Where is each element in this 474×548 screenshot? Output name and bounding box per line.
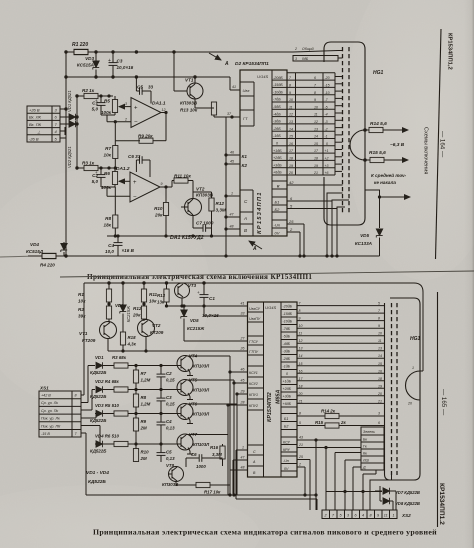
svg-text:-1: -1 xyxy=(325,135,328,139)
svg-text:VT2: VT2 xyxy=(196,187,205,192)
svg-text:-3дБ: -3дБ xyxy=(273,120,281,124)
svg-text:В: В xyxy=(244,228,247,233)
svg-text:VT1: VT1 xyxy=(79,331,88,336)
svg-text:⊥: ⊥ xyxy=(37,129,41,134)
svg-text:-5дБ: -5дБ xyxy=(283,335,291,339)
transistor VT3 xyxy=(175,283,197,307)
transistor VT7 xyxy=(177,432,210,454)
svg-text:VD5: VD5 xyxy=(190,318,199,323)
diode VD8 xyxy=(380,486,420,510)
svg-text:ЛШ: ЛШ xyxy=(362,459,369,463)
svg-text:21: 21 xyxy=(298,399,303,403)
svg-text:VD8 КД522В: VD8 КД522В xyxy=(395,501,420,506)
svg-text:КС215Ж: КС215Ж xyxy=(126,305,131,322)
svg-text:С6 33: С6 33 xyxy=(128,154,141,159)
svg-text:15: 15 xyxy=(314,142,318,146)
svg-text:К средней точ-: К средней точ- xyxy=(371,172,407,178)
resistor R13 xyxy=(195,98,217,117)
svg-text:10,0×16: 10,0×16 xyxy=(117,65,134,70)
wire GT pin xyxy=(214,112,240,118)
svg-text:0: 0 xyxy=(326,142,328,146)
svg-text:8: 8 xyxy=(299,412,301,416)
svg-text:КСУ1: КСУ1 xyxy=(249,371,258,375)
svg-text:0V: 0V xyxy=(275,231,280,236)
svg-text:VD1: VD1 xyxy=(95,355,104,360)
svg-text:+6дБ: +6дБ xyxy=(283,402,292,406)
svg-text:21: 21 xyxy=(298,443,303,447)
svg-text:9: 9 xyxy=(378,324,380,328)
resistor R3 xyxy=(77,161,115,171)
svg-text:R8: R8 xyxy=(105,216,111,221)
wire staircase to XS2 xyxy=(315,439,392,510)
resistor R17 xyxy=(176,482,230,495)
wire KSU KRU rows xyxy=(297,436,361,448)
resistor row4 xyxy=(114,441,177,446)
transistor VT4 xyxy=(177,354,210,376)
svg-text:11: 11 xyxy=(289,105,293,109)
svg-text:20к: 20к xyxy=(132,313,141,318)
IC D1 dB cells xyxy=(283,305,293,472)
wire K pins xyxy=(225,117,240,256)
svg-text:-15дБ: -15дБ xyxy=(283,312,293,316)
wire opamp1 minus input xyxy=(107,121,131,141)
margin rule top xyxy=(436,29,442,259)
margin page 164 xyxy=(439,131,446,158)
svg-text:Зелень: Зелень xyxy=(363,430,375,434)
svg-text:ке накала: ке накала xyxy=(374,180,396,185)
svg-text:2к: 2к xyxy=(340,420,346,425)
svg-text:VD2 КД521: VD2 КД521 xyxy=(67,146,72,168)
svg-text:1: 1 xyxy=(393,514,395,518)
wire CAB drops xyxy=(230,450,317,510)
capacitor C3 xyxy=(108,52,134,77)
svg-text:КД522Б: КД522Б xyxy=(90,370,106,375)
resistor R10 xyxy=(133,444,149,462)
svg-text:-7дБ: -7дБ xyxy=(283,327,291,331)
svg-text:— 164 —: — 164 — xyxy=(439,131,446,158)
svg-text:Вх. ПК: Вх. ПК xyxy=(29,122,42,127)
connector XS1 top xyxy=(27,106,66,142)
svg-text:VD1 - VD4: VD1 - VD4 xyxy=(86,470,109,476)
svg-text:9: 9 xyxy=(299,317,301,321)
svg-text:R15: R15 xyxy=(315,420,324,425)
resistor R15 bottom xyxy=(297,420,385,428)
svg-text:0дБ: 0дБ xyxy=(302,57,309,61)
wire opamp1 plus input xyxy=(101,107,131,122)
svg-text:3: 3 xyxy=(378,412,380,416)
svg-text:6: 6 xyxy=(314,76,316,80)
wire GTPU row xyxy=(108,337,240,353)
svg-text:R7: R7 xyxy=(105,146,111,151)
svg-text:Пик. ур. ПК: Пик. ур. ПК xyxy=(41,424,61,428)
svg-text:-4дБ: -4дБ xyxy=(283,342,291,346)
svg-text:~6,3 В: ~6,3 В xyxy=(390,142,405,148)
svg-text:0V: 0V xyxy=(284,467,289,471)
svg-text:ГТСУ: ГТСУ xyxy=(249,340,259,344)
svg-text:0,13: 0,13 xyxy=(166,456,175,461)
ground tap xyxy=(60,127,65,135)
svg-text:2: 2 xyxy=(124,118,127,122)
margin text schemes xyxy=(423,127,429,174)
margin page 165 xyxy=(440,389,447,416)
svg-text:1: 1 xyxy=(242,446,244,450)
svg-text:3: 3 xyxy=(125,102,127,106)
svg-text:19: 19 xyxy=(378,384,382,388)
capacitor C6 xyxy=(186,452,223,469)
svg-text:VD4 R6 510: VD4 R6 510 xyxy=(95,434,119,439)
svg-text:КС133А: КС133А xyxy=(355,241,372,246)
svg-text:26: 26 xyxy=(240,347,245,351)
connector XS2 xyxy=(322,510,411,519)
svg-text:R10: R10 xyxy=(154,206,163,211)
resistor R2 xyxy=(77,88,113,99)
svg-text:-10дБ: -10дБ xyxy=(273,90,283,94)
svg-text:R3 1к: R3 1к xyxy=(82,161,95,166)
label 6.3V xyxy=(390,142,405,148)
svg-text:Кк: Кк xyxy=(363,452,367,456)
svg-text:+1: +1 xyxy=(325,149,329,153)
svg-text:R3 68к: R3 68к xyxy=(112,355,127,360)
svg-text:-20дБ: -20дБ xyxy=(283,305,293,309)
svg-text:2М: 2М xyxy=(140,426,147,431)
svg-text:+2дБ: +2дБ xyxy=(273,156,282,160)
svg-text:Б1: Б1 xyxy=(275,200,280,205)
svg-text:14: 14 xyxy=(378,354,382,358)
signal name box xyxy=(361,427,384,470)
svg-text:+: + xyxy=(197,290,200,295)
diode VD3 xyxy=(90,403,119,423)
wire GTSU row xyxy=(184,340,240,342)
wire CAB pins xyxy=(225,192,240,231)
svg-text:А: А xyxy=(224,61,229,67)
svg-text:18к: 18к xyxy=(104,223,112,228)
svg-text:-10: -10 xyxy=(325,91,330,95)
svg-text:DA1.2: DA1.2 xyxy=(116,166,130,172)
svg-text:КП103Л: КП103Л xyxy=(193,364,210,369)
transistor VT2 bottom xyxy=(138,320,164,337)
svg-text:13к: 13к xyxy=(157,300,165,305)
svg-text:VD1 КД521: VD1 КД521 xyxy=(67,90,72,112)
transistor VT1 xyxy=(180,78,203,113)
svg-text:20: 20 xyxy=(288,171,293,175)
svg-text:КР1534ПП2: КР1534ПП2 xyxy=(267,392,273,422)
IC D1 KR1534PP2 xyxy=(248,302,298,477)
resistor R14 xyxy=(365,121,408,133)
svg-text:+6: +6 xyxy=(325,171,329,175)
svg-text:28: 28 xyxy=(240,401,245,405)
svg-text:+2дБ: +2дБ xyxy=(283,387,292,391)
svg-text:16: 16 xyxy=(378,369,382,373)
svg-text:+: + xyxy=(108,58,111,64)
svg-text:+: + xyxy=(133,180,137,186)
display common wires xyxy=(326,193,349,257)
svg-text:42: 42 xyxy=(289,180,294,185)
capacitor С3 xyxy=(157,390,176,414)
svg-text:-2дБ: -2дБ xyxy=(283,357,291,361)
label DA1 type xyxy=(170,235,204,241)
svg-text:R11 10к: R11 10к xyxy=(174,174,191,179)
wire XS1 row stubs xyxy=(81,366,100,496)
svg-text:+1дБ: +1дБ xyxy=(283,380,292,384)
margin rule bottom xyxy=(437,292,439,527)
svg-text:UвхПУ: UвхПУ xyxy=(249,317,261,321)
svg-text:5: 5 xyxy=(299,421,301,425)
svg-text:10: 10 xyxy=(289,98,293,102)
IC D2 dB cells xyxy=(272,76,287,175)
resistor R4 xyxy=(40,253,56,267)
svg-text:U/14S: U/14S xyxy=(257,74,268,79)
svg-text:R16: R16 xyxy=(210,445,219,450)
svg-text:Пик. ур. Лк: Пик. ур. Лк xyxy=(41,417,60,421)
resistor R16 xyxy=(210,444,225,466)
svg-text:3,3М: 3,3М xyxy=(216,208,226,213)
svg-text:+26 В: +26 В xyxy=(29,108,40,113)
diode VD2 xyxy=(60,121,76,168)
svg-text:КПУ2: КПУ2 xyxy=(249,404,258,408)
svg-text:9: 9 xyxy=(314,98,316,102)
resistor R11 bottom xyxy=(141,283,157,304)
svg-text:-7дБ: -7дБ xyxy=(273,98,281,102)
wire drain to pin xyxy=(186,356,240,495)
resistor R12 bottom xyxy=(132,302,147,320)
zener VD4 xyxy=(26,242,67,256)
svg-text:2: 2 xyxy=(294,47,297,51)
capacitor C6 xyxy=(128,154,150,177)
svg-text:13: 13 xyxy=(314,127,318,131)
svg-text:8: 8 xyxy=(289,84,291,88)
resistor R7 xyxy=(104,141,118,169)
svg-text:С: С xyxy=(253,450,256,454)
wire mid rail xyxy=(66,76,230,78)
wire rail entry xyxy=(414,283,423,371)
node common row xyxy=(293,47,342,61)
svg-text:15: 15 xyxy=(378,362,382,366)
diode VD1 xyxy=(60,90,76,120)
svg-text:11: 11 xyxy=(314,113,318,117)
capacitor C1 xyxy=(92,96,106,115)
svg-text:R7: R7 xyxy=(141,371,147,376)
svg-text:XS2: XS2 xyxy=(401,513,411,518)
svg-text:Б2: Б2 xyxy=(284,425,288,429)
zener VD5 bottom xyxy=(181,305,205,341)
wire supply riser xyxy=(81,283,84,395)
svg-text:2: 2 xyxy=(324,514,327,518)
svg-text:КТ209: КТ209 xyxy=(150,330,164,335)
wire pin33 row xyxy=(204,306,240,316)
wire supply drops xyxy=(287,224,305,257)
svg-text:43: 43 xyxy=(299,436,303,440)
svg-text:С2: С2 xyxy=(92,173,98,178)
svg-text:-Uп: -Uп xyxy=(283,459,289,463)
svg-text:ГТПУ: ГТПУ xyxy=(249,350,259,354)
svg-text:VT8: VT8 xyxy=(166,463,175,468)
svg-text:+2: +2 xyxy=(325,157,329,161)
wire lower rail xyxy=(107,235,240,237)
svg-text:С1: С1 xyxy=(92,101,98,106)
label middle tap xyxy=(371,172,410,197)
svg-text:С3: С3 xyxy=(166,395,172,400)
capacitor C1 bottom xyxy=(197,283,219,318)
diode VD1 xyxy=(88,355,114,375)
capacitor С2 xyxy=(157,366,176,390)
svg-text:+6дБ: +6дБ xyxy=(273,171,282,175)
pin ladder rows xyxy=(287,73,342,175)
wire VT1 drain xyxy=(195,77,240,90)
resistor R1 xyxy=(72,42,88,55)
svg-text:R8: R8 xyxy=(141,395,147,400)
svg-text:Вх. ЛК: Вх. ЛК xyxy=(29,115,42,120)
wire input node rail xyxy=(76,95,78,169)
svg-text:-15дБ: -15дБ xyxy=(273,83,283,87)
svg-text:10к: 10к xyxy=(104,153,112,158)
svg-text:R10: R10 xyxy=(141,450,150,455)
svg-text:46: 46 xyxy=(230,151,234,155)
svg-text:С2: С2 xyxy=(166,371,172,376)
svg-text:КРУ: КРУ xyxy=(283,448,290,452)
svg-text:25: 25 xyxy=(288,219,294,224)
label A arrow xyxy=(209,53,269,67)
svg-text:19: 19 xyxy=(289,164,293,168)
transistor VT8 xyxy=(162,463,184,487)
svg-text:0: 0 xyxy=(286,372,288,376)
wire opamp2 output xyxy=(160,186,167,202)
svg-text:HG1: HG1 xyxy=(410,336,421,342)
svg-text:46: 46 xyxy=(241,368,245,372)
svg-text:VD5: VD5 xyxy=(360,233,369,238)
svg-text:1: 1 xyxy=(412,366,414,370)
svg-text:10к: 10к xyxy=(78,299,86,304)
IC D2 right lower cells xyxy=(272,180,294,236)
svg-text:КД522Б: КД522Б xyxy=(90,418,106,423)
svg-text:Д: Д xyxy=(362,466,366,470)
svg-text:+42 В: +42 В xyxy=(41,394,51,398)
svg-text:10: 10 xyxy=(299,324,303,328)
connector XS1 xyxy=(39,386,81,438)
svg-text:3,3М: 3,3М xyxy=(212,452,222,457)
svg-text:С4: С4 xyxy=(166,419,172,424)
margin text KR1534PP1.2 bottom xyxy=(438,483,445,525)
svg-text:ГТ: ГТ xyxy=(243,116,248,121)
transistor VT2 xyxy=(181,187,214,216)
svg-text:1: 1 xyxy=(231,192,233,196)
resistor R11 xyxy=(166,174,193,199)
resistor R2 bottom xyxy=(78,302,112,322)
wire left rail xyxy=(65,52,67,256)
svg-text:КД522Б: КД522Б xyxy=(90,449,106,454)
zener VD6 xyxy=(115,283,131,332)
svg-text:С1: С1 xyxy=(209,296,215,301)
svg-text:КП103Л: КП103Л xyxy=(193,442,210,447)
svg-text:А: А xyxy=(252,246,257,252)
svg-text:0,15: 0,15 xyxy=(166,378,175,383)
resistor R9 xyxy=(133,414,147,445)
trimmer R5 xyxy=(101,96,126,115)
svg-text:8: 8 xyxy=(314,91,316,95)
svg-text:-3: -3 xyxy=(325,120,328,124)
svg-text:10к: 10к xyxy=(149,299,157,304)
wire bottom rail xyxy=(0,255,380,257)
svg-text:33: 33 xyxy=(241,312,245,316)
caption bottom figure xyxy=(93,528,437,537)
transistor VT1 bottom xyxy=(79,322,117,344)
svg-text:13: 13 xyxy=(299,347,303,351)
svg-text:-5дБ: -5дБ xyxy=(273,105,281,109)
svg-text:1,2М: 1,2М xyxy=(141,402,151,407)
capacitor С4 xyxy=(157,414,176,445)
resistor R10 xyxy=(154,203,169,237)
svg-text:16: 16 xyxy=(299,369,303,373)
svg-text:С6: С6 xyxy=(191,452,197,457)
svg-text:1000: 1000 xyxy=(196,464,206,469)
svg-text:-2: -2 xyxy=(325,127,328,131)
svg-text:R1: R1 xyxy=(78,292,84,297)
svg-text:+3: +3 xyxy=(325,164,329,168)
svg-text:Б1: Б1 xyxy=(284,417,288,421)
margin text KR1534PP1,2 top xyxy=(447,33,453,70)
wire opamp1 output xyxy=(161,111,167,140)
svg-text:13: 13 xyxy=(289,120,293,124)
svg-text:VD6: VD6 xyxy=(115,303,124,308)
svg-text:VD3 R5 510: VD3 R5 510 xyxy=(95,403,119,408)
svg-text:КС515А: КС515А xyxy=(77,63,94,68)
svg-text:−: − xyxy=(134,120,138,126)
svg-text:×16 В: ×16 В xyxy=(122,248,135,253)
svg-text:+3дБ: +3дБ xyxy=(283,395,292,399)
IC D1 left cells xyxy=(248,307,264,475)
svg-text:КСУ2: КСУ2 xyxy=(249,382,258,386)
resistor R13 bottom xyxy=(157,283,169,306)
transistor VT6 xyxy=(177,402,210,424)
svg-text:М85А: М85А xyxy=(276,390,282,404)
svg-text:R2: R2 xyxy=(78,307,84,312)
svg-text:VT3: VT3 xyxy=(188,283,197,288)
svg-text:R13: R13 xyxy=(157,293,166,298)
svg-text:КС515Д: КС515Д xyxy=(26,249,44,254)
svg-text:R14 2к: R14 2к xyxy=(321,409,336,414)
svg-text:-20: -20 xyxy=(325,76,330,80)
svg-text:R6: R6 xyxy=(104,171,110,176)
zener VD3 xyxy=(77,52,99,77)
svg-text:8: 8 xyxy=(378,317,380,321)
svg-text:VD2 R4 68к: VD2 R4 68к xyxy=(95,379,119,384)
svg-text:-Uп: -Uп xyxy=(274,223,281,228)
svg-text:2: 2 xyxy=(298,463,301,467)
svg-text:39к: 39к xyxy=(78,314,86,319)
svg-text:С3: С3 xyxy=(117,59,123,64)
svg-text:20: 20 xyxy=(377,392,382,396)
svg-text:12: 12 xyxy=(314,120,318,124)
svg-text:КПУ1: КПУ1 xyxy=(249,393,258,397)
svg-text:9: 9 xyxy=(161,182,163,186)
svg-text:5,0: 5,0 xyxy=(92,107,99,112)
capacitor С5 xyxy=(157,444,176,462)
svg-text:48: 48 xyxy=(241,466,245,470)
svg-text:11: 11 xyxy=(299,332,303,336)
svg-text:-3дБ: -3дБ xyxy=(283,350,291,354)
svg-text:18: 18 xyxy=(299,384,303,388)
svg-text:14: 14 xyxy=(299,354,303,358)
IC D1 left pin stubs xyxy=(240,302,248,471)
svg-text:VT1: VT1 xyxy=(185,78,194,83)
svg-text:100к: 100к xyxy=(101,110,112,115)
svg-text:2М: 2М xyxy=(140,456,147,461)
svg-text:-10дБ: -10дБ xyxy=(283,320,293,324)
svg-text:КД522Б: КД522Б xyxy=(88,479,106,485)
svg-text:R14 5,6: R14 5,6 xyxy=(370,121,387,127)
svg-text:15: 15 xyxy=(299,362,303,366)
svg-text:-15 В: -15 В xyxy=(41,432,50,436)
display connector dashes bottom xyxy=(392,303,398,475)
